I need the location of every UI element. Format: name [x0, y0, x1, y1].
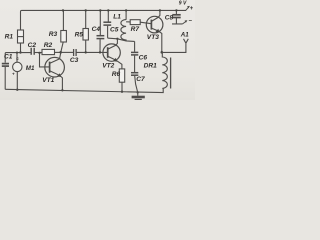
node: C5 on top rail [107, 9, 109, 11]
wire: C8 top lead [175, 10, 177, 14]
svg-text:+: + [190, 6, 194, 12]
wire: C1 down to bottom rail [4, 67, 6, 89]
svg-text:VT1: VT1 [42, 77, 54, 84]
capacitor C7 [131, 72, 138, 74]
svg-text:R7: R7 [131, 26, 140, 33]
capacitor C3 [73, 49, 75, 56]
wire: node to C3 [61, 51, 74, 53]
node: R3 / VT1 collector [59, 51, 62, 54]
wire: node to R7 [126, 21, 130, 23]
resistor R6 [119, 69, 124, 82]
node: C7 on bottom rail [137, 91, 139, 93]
resistor R3 [61, 31, 67, 43]
capacitor C5 [103, 21, 111, 23]
transistor VT1 [45, 57, 65, 77]
wire: R5 bottom lead [85, 40, 87, 52]
svg-text:C2: C2 [28, 42, 37, 49]
transistor VT2 [103, 44, 120, 61]
resistor R5 [83, 29, 88, 41]
svg-text:C5: C5 [110, 26, 119, 33]
wire: C4 top lead [99, 10, 101, 35]
wire: C6 top lead from tank wire [134, 41, 136, 51]
node: R6 on bottom rail [121, 91, 123, 93]
node: L1 on top rail [125, 9, 127, 11]
capacitor C1 [2, 63, 9, 65]
svg-text:VT2: VT2 [102, 62, 114, 69]
svg-text:9 V: 9 V [179, 1, 187, 7]
node: C8 on top rail [175, 9, 177, 11]
svg-text:R2: R2 [44, 42, 53, 49]
svg-text:C7: C7 [136, 76, 145, 83]
node: VT1 base drop [38, 52, 40, 54]
svg-text:R3: R3 [49, 31, 58, 38]
wire: C6 to C7 [134, 56, 136, 72]
antenna A1 [184, 39, 189, 43]
svg-text:L1: L1 [113, 14, 121, 21]
wire: C5 top lead [107, 10, 109, 21]
wire: R1 bottom lead [20, 43, 22, 53]
battery minus terminal arrow [183, 22, 186, 24]
capacitor C4 [97, 35, 105, 37]
wire: drop to VT1 base [40, 53, 50, 67]
capacitor C2 [30, 48, 32, 55]
capacitor C6 [131, 51, 138, 53]
inductor DR1 core [170, 58, 172, 89]
svg-text:R5: R5 [75, 31, 84, 38]
battery plus terminal arrow [186, 8, 189, 11]
svg-text:A1: A1 [180, 32, 189, 39]
svg-text:VT3: VT3 [147, 34, 159, 41]
node: M1 on bottom rail [16, 89, 18, 91]
svg-text:M1: M1 [26, 65, 35, 72]
wire: M1 riser to base wire [16, 53, 18, 63]
node: R3 on top rail [62, 9, 64, 11]
node: C4 on base wire [99, 51, 101, 53]
microphone M1 [13, 62, 22, 71]
svg-text:R6: R6 [112, 71, 121, 78]
wire: R5 top lead [85, 10, 87, 28]
svg-text:C6: C6 [139, 55, 148, 62]
svg-text:R1: R1 [5, 34, 14, 41]
node: VT1 emitter on bottom rail [61, 89, 63, 91]
wire: top +9V supply rail with corner down to R1 [21, 10, 187, 30]
node: R1 to base wire [19, 51, 21, 53]
wire: C5 bottom lead and tank bottom wire [108, 26, 135, 42]
svg-text:C3: C3 [70, 57, 79, 64]
wire: R3 bottom lead [61, 42, 63, 52]
svg-text:DR1: DR1 [144, 62, 158, 69]
inductor DR1 [162, 52, 167, 88]
svg-text:c: c [16, 56, 19, 61]
svg-text:+: + [12, 71, 15, 76]
resistor R7 [130, 20, 140, 25]
capacitor C8 [172, 14, 180, 16]
node: M1 riser junction [16, 52, 18, 54]
transistor VT3 [146, 16, 163, 33]
svg-text:C8: C8 [165, 14, 174, 21]
wire: emitter node to antenna riser [162, 43, 186, 52]
svg-text:−: − [188, 19, 192, 25]
wire: C8 bottom lead and minus stub [172, 18, 183, 24]
wire: C7 bottom lead [135, 76, 138, 92]
resistor R2 [42, 49, 55, 54]
wire: bottom rail [5, 88, 163, 92]
wire: R2 to node [55, 51, 61, 53]
wire: R6 bottom lead [121, 82, 123, 92]
wire: L1 riser to top rail [125, 10, 127, 19]
node: R5 on top rail [85, 9, 87, 11]
node: VT3 collector on top rail [159, 9, 161, 11]
ground [137, 92, 139, 95]
svg-text:C4: C4 [92, 26, 101, 33]
wire: C4 bottom lead [99, 39, 101, 52]
wire: R7 to VT3 base [140, 22, 151, 24]
wire: C2 to R2 [34, 52, 42, 54]
wire: left input wire with corner down to C1 [5, 53, 31, 63]
node: VT3 emitter node [161, 51, 164, 54]
wire: M1 down to bottom rail [16, 72, 18, 90]
wire: R3 top lead [62, 10, 64, 30]
svg-text:C1: C1 [4, 53, 13, 60]
node: VT2 collector on tank wire [116, 38, 118, 40]
node: C4 on top rail [99, 9, 101, 11]
wire: C3 to VT2 base [76, 51, 108, 53]
resistor R1 [18, 30, 24, 43]
inductor L1 [121, 20, 126, 41]
node: R5 on base wire [85, 51, 87, 53]
